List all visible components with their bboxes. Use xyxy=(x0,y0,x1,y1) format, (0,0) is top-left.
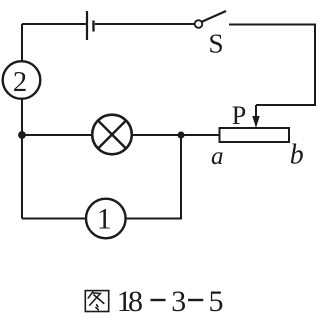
svg-text:P: P xyxy=(232,101,246,130)
svg-text:1: 1 xyxy=(97,202,112,235)
svg-text:b: b xyxy=(290,140,304,171)
svg-text:S: S xyxy=(208,27,223,58)
svg-text:a: a xyxy=(211,143,224,170)
svg-text:3: 3 xyxy=(171,285,186,318)
svg-text:2: 2 xyxy=(13,67,27,98)
svg-text:8: 8 xyxy=(128,285,143,318)
svg-text:5: 5 xyxy=(209,285,224,318)
